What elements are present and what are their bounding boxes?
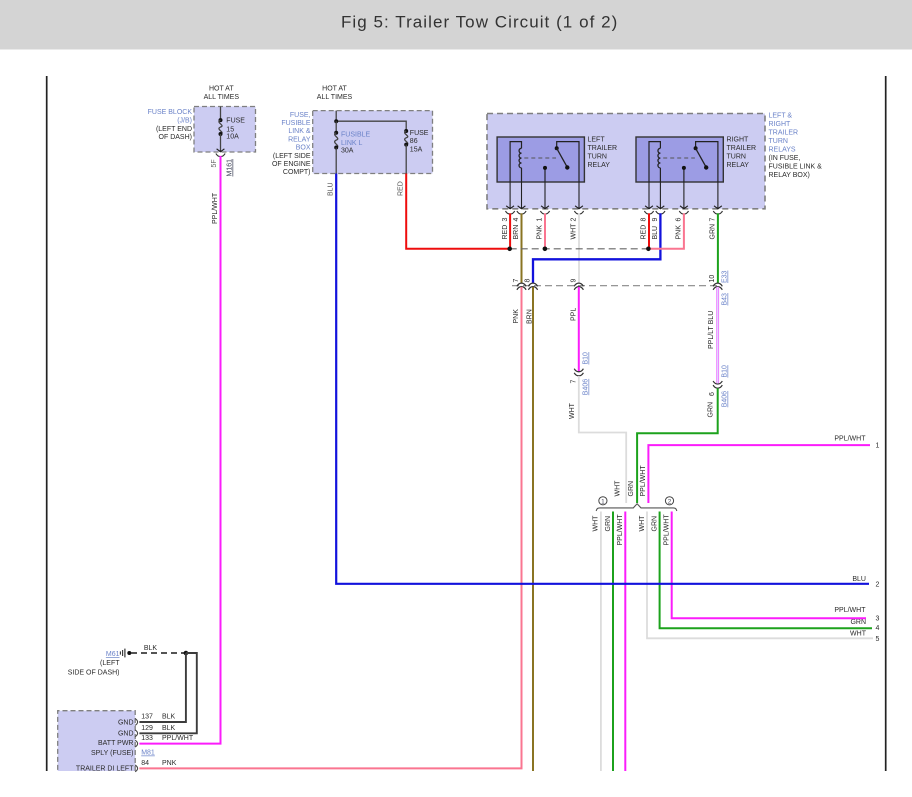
svg-text:GRN: GRN bbox=[628, 481, 635, 497]
wire BLU relay pin 9 to connector pin 8 bbox=[533, 213, 660, 283]
svg-text:15: 15 bbox=[226, 126, 234, 133]
svg-text:RIGHT: RIGHT bbox=[769, 121, 792, 128]
wire BRN relay pin 4 to connector pin 7 bbox=[521, 213, 523, 283]
svg-text:BLK: BLK bbox=[162, 725, 176, 732]
wire PPL/WHT branch 2 to right edge circuit 3 bbox=[672, 512, 866, 619]
relay pin 1 PNK bbox=[544, 182, 546, 208]
wire GRN relay pin 7 to connector pin 10 bbox=[717, 213, 719, 283]
fuse 86 15A bbox=[404, 129, 408, 133]
wire WHT branch 1 to page bottom bbox=[600, 512, 602, 772]
svg-text:PNK: PNK bbox=[162, 760, 177, 767]
title bar bbox=[0, 0, 912, 50]
wire WHT relay pin 2 to connector pin 9 bbox=[578, 213, 580, 283]
svg-text:BRN: BRN bbox=[513, 225, 520, 240]
relay pin 7 GRN bbox=[717, 182, 719, 208]
splice branch circle 1 bbox=[599, 497, 607, 505]
wire RED from fuse 86 to relay junction bbox=[406, 174, 510, 249]
wire RED relay pin 8 to junction bbox=[648, 213, 650, 249]
ground M61 bbox=[124, 649, 126, 658]
left page border bbox=[46, 76, 48, 771]
svg-text:B406: B406 bbox=[722, 391, 729, 407]
wire PPL/WHT from fuse 15 to pin 133 bbox=[139, 156, 220, 744]
svg-text:LEFT &: LEFT & bbox=[769, 113, 793, 120]
relay pin 3 RED bbox=[509, 182, 511, 208]
svg-text:LEFT: LEFT bbox=[588, 137, 606, 144]
svg-text:WHT: WHT bbox=[615, 480, 622, 497]
svg-text:15A: 15A bbox=[410, 146, 423, 153]
svg-text:(LEFT END: (LEFT END bbox=[156, 126, 192, 133]
connector B10 B406 pin 6 on PPL/LT BLU wire bbox=[713, 381, 722, 384]
svg-text:2: 2 bbox=[571, 218, 578, 222]
svg-text:6: 6 bbox=[676, 218, 683, 222]
svg-text:RELAY: RELAY bbox=[288, 136, 311, 143]
connector 5F M161 bbox=[216, 154, 225, 157]
svg-text:1: 1 bbox=[537, 218, 544, 222]
svg-text:TRAILER: TRAILER bbox=[588, 145, 618, 152]
wire PPL/WHT feed circuit 1 from right edge to splice bbox=[648, 445, 870, 503]
svg-text:129: 129 bbox=[141, 725, 153, 732]
svg-text:LINK &: LINK & bbox=[288, 128, 311, 135]
svg-text:TURN: TURN bbox=[588, 154, 607, 161]
svg-text:1: 1 bbox=[601, 498, 605, 505]
splice bracket with branches bbox=[596, 504, 677, 511]
svg-text:FUSIBLE: FUSIBLE bbox=[281, 120, 311, 127]
svg-text:RELAY BOX): RELAY BOX) bbox=[769, 172, 810, 179]
junction dot BLK bbox=[184, 651, 189, 656]
svg-text:PPL/WHT: PPL/WHT bbox=[834, 607, 866, 614]
wire RED relay pin 3 to junction bbox=[509, 213, 511, 249]
svg-text:PNK: PNK bbox=[513, 309, 520, 324]
wire BLU circuit 2 from fusible link to right edge bbox=[336, 174, 869, 584]
right page border bbox=[885, 76, 887, 771]
svg-text:Fig 5: Trailer Tow Circuit (1: Fig 5: Trailer Tow Circuit (1 of 2) bbox=[341, 13, 618, 32]
svg-text:4: 4 bbox=[513, 218, 520, 222]
wire GRN branch 2 to right edge circuit 4 bbox=[660, 512, 872, 629]
svg-text:ALL TIMES: ALL TIMES bbox=[317, 94, 353, 101]
svg-text:GRN: GRN bbox=[605, 516, 612, 532]
junction dashed bus RED 3 to RED 8 bbox=[510, 248, 649, 250]
svg-text:(LEFT: (LEFT bbox=[100, 660, 120, 667]
svg-text:9: 9 bbox=[570, 279, 577, 283]
relay pin 8 RED bbox=[648, 182, 650, 208]
svg-text:2: 2 bbox=[876, 582, 880, 589]
relay pin 6 PNK bbox=[683, 182, 685, 208]
svg-text:7: 7 bbox=[513, 279, 520, 283]
svg-text:SIDE OF DASH): SIDE OF DASH) bbox=[68, 670, 120, 677]
svg-text:BATT PWR: BATT PWR bbox=[98, 740, 134, 747]
svg-text:HOT AT: HOT AT bbox=[209, 86, 234, 93]
svg-text:FUSIBLE: FUSIBLE bbox=[341, 131, 371, 138]
wire WHT from B406 pin 7 to splice bbox=[579, 376, 626, 503]
wire GRN from B406 pin 6 to splice bbox=[637, 388, 718, 503]
wire BLK dashed from ground M61 bbox=[131, 652, 186, 654]
svg-text:RELAY: RELAY bbox=[588, 162, 611, 169]
svg-text:RED: RED bbox=[502, 225, 509, 240]
svg-text:137: 137 bbox=[141, 714, 153, 721]
wire WHT branch 2 to right edge circuit 5 bbox=[647, 512, 873, 639]
svg-text:PNK: PNK bbox=[676, 225, 683, 240]
svg-text:PNK: PNK bbox=[537, 225, 544, 240]
svg-text:BLK: BLK bbox=[162, 714, 176, 721]
svg-text:ALL TIMES: ALL TIMES bbox=[204, 94, 240, 101]
svg-text:BLK: BLK bbox=[144, 645, 158, 652]
svg-text:B10: B10 bbox=[583, 352, 590, 365]
svg-text:10A: 10A bbox=[226, 133, 239, 140]
svg-text:BLU: BLU bbox=[327, 182, 334, 196]
svg-text:86: 86 bbox=[410, 138, 418, 145]
svg-text:RELAYS: RELAYS bbox=[769, 147, 796, 154]
svg-text:PPL: PPL bbox=[570, 308, 577, 321]
junction dot PNK 1 bbox=[543, 247, 548, 252]
relay pin 9 BLU bbox=[659, 182, 661, 208]
svg-text:M61: M61 bbox=[106, 651, 120, 658]
svg-text:COMPT): COMPT) bbox=[283, 169, 311, 176]
svg-text:8: 8 bbox=[641, 218, 648, 222]
connector pin 10 bbox=[713, 283, 722, 286]
svg-text:OF DASH): OF DASH) bbox=[159, 134, 192, 141]
junction dot RED 8 bbox=[646, 247, 651, 252]
svg-text:6: 6 bbox=[709, 392, 716, 396]
svg-text:E33: E33 bbox=[722, 270, 729, 283]
svg-text:RELAY: RELAY bbox=[727, 162, 750, 169]
svg-text:FUSE,: FUSE, bbox=[290, 112, 311, 119]
svg-text:5F: 5F bbox=[211, 159, 218, 167]
left and right trailer turn relay outer box bbox=[487, 114, 765, 209]
svg-text:HOT AT: HOT AT bbox=[322, 86, 347, 93]
svg-text:TURN: TURN bbox=[727, 154, 746, 161]
svg-text:BLU: BLU bbox=[652, 226, 659, 240]
wire PPL/LT BLU connector pin 10 to connector B10 bbox=[716, 287, 719, 385]
svg-text:WHT: WHT bbox=[850, 630, 867, 637]
svg-text:3: 3 bbox=[502, 218, 509, 222]
svg-text:10: 10 bbox=[709, 275, 716, 283]
svg-text:TRAILER: TRAILER bbox=[727, 145, 757, 152]
svg-text:M81: M81 bbox=[141, 750, 155, 757]
svg-text:3: 3 bbox=[876, 615, 880, 622]
svg-text:RED: RED bbox=[641, 225, 648, 240]
svg-text:7: 7 bbox=[570, 380, 577, 384]
wire GRN branch 1 to page bottom bbox=[612, 512, 614, 772]
bus wire inside fusible link box bbox=[336, 111, 406, 131]
svg-text:WHT: WHT bbox=[569, 402, 576, 419]
svg-text:5: 5 bbox=[876, 636, 880, 643]
wire PNK connector pin 7 to trailer pin 84 bbox=[139, 287, 521, 769]
wire BLK junction to pin 137 bbox=[139, 653, 186, 722]
svg-text:(J/B): (J/B) bbox=[177, 118, 192, 125]
svg-text:WHT: WHT bbox=[592, 515, 599, 532]
svg-text:GRN: GRN bbox=[710, 224, 717, 240]
svg-text:GRN: GRN bbox=[708, 402, 715, 418]
svg-text:PPL/WHT: PPL/WHT bbox=[834, 435, 866, 442]
connector pin 7 bbox=[517, 283, 526, 286]
svg-text:WHT: WHT bbox=[571, 223, 578, 240]
svg-text:GRN: GRN bbox=[850, 619, 866, 626]
svg-text:SPLY (FUSE): SPLY (FUSE) bbox=[91, 750, 134, 757]
svg-text:GND: GND bbox=[118, 731, 134, 738]
wire PNK relay pin 1 to junction bbox=[544, 213, 546, 249]
junction dot RED 3 bbox=[507, 247, 512, 252]
svg-text:4: 4 bbox=[876, 625, 880, 632]
svg-text:84: 84 bbox=[141, 760, 149, 767]
relay pin 2 WHT bbox=[578, 182, 580, 208]
svg-text:1: 1 bbox=[876, 443, 880, 450]
svg-text:9: 9 bbox=[652, 218, 659, 222]
svg-text:TRAILER DI LEFT: TRAILER DI LEFT bbox=[76, 766, 134, 773]
relay pin 4 BRN bbox=[521, 182, 523, 208]
splice branch circle 2 bbox=[665, 497, 673, 505]
right trailer turn relay bbox=[636, 137, 723, 182]
svg-text:(LEFT SIDE: (LEFT SIDE bbox=[273, 153, 311, 160]
svg-text:7: 7 bbox=[710, 218, 717, 222]
svg-text:BOX: BOX bbox=[296, 145, 311, 152]
svg-text:GND: GND bbox=[118, 719, 134, 726]
svg-text:B10: B10 bbox=[722, 365, 729, 378]
svg-text:B43: B43 bbox=[722, 293, 729, 306]
svg-text:(IN FUSE,: (IN FUSE, bbox=[769, 155, 801, 162]
svg-text:GRN: GRN bbox=[652, 516, 659, 532]
svg-text:133: 133 bbox=[141, 735, 153, 742]
fuse 15 10A bbox=[220, 107, 222, 121]
svg-text:RIGHT: RIGHT bbox=[727, 137, 750, 144]
svg-text:PPL/WHT: PPL/WHT bbox=[212, 192, 219, 224]
svg-text:B406: B406 bbox=[583, 379, 590, 395]
left trailer turn relay bbox=[497, 137, 584, 182]
svg-text:8: 8 bbox=[525, 279, 532, 283]
fuse fusible link and relay box bbox=[313, 111, 433, 174]
svg-text:30A: 30A bbox=[341, 148, 354, 155]
svg-text:M161: M161 bbox=[227, 159, 234, 177]
svg-text:2: 2 bbox=[668, 498, 672, 505]
svg-text:FUSE: FUSE bbox=[410, 130, 429, 137]
wire PNK relay pin 6 to junction bbox=[651, 213, 684, 249]
fuse block J/B box bbox=[194, 107, 256, 153]
svg-text:PPL/WHT: PPL/WHT bbox=[640, 465, 647, 497]
svg-text:FUSIBLE LINK &: FUSIBLE LINK & bbox=[769, 164, 823, 171]
svg-text:PPL/WHT: PPL/WHT bbox=[162, 735, 194, 742]
fusible link L 30A bbox=[335, 121, 337, 133]
trailer tow unit box bbox=[58, 711, 136, 771]
connector pin 9 bbox=[574, 283, 583, 286]
svg-text:OF ENGINE: OF ENGINE bbox=[272, 161, 311, 168]
wire BRN connector pin 8 down to page bottom bbox=[532, 287, 534, 771]
svg-text:LINK L: LINK L bbox=[341, 140, 363, 147]
svg-text:WHT: WHT bbox=[639, 515, 646, 532]
connector row E33 B43 dashed line bbox=[512, 285, 718, 287]
wire PPL connector pin 9 to connector B10 bbox=[578, 287, 580, 372]
svg-text:FUSE: FUSE bbox=[226, 117, 245, 124]
connector B10 B406 pin 7 on PPL wire bbox=[574, 369, 583, 372]
wire BLK junction to pin 129 bbox=[139, 653, 196, 733]
wire PPL/WHT branch 1 to page bottom bbox=[624, 512, 626, 772]
svg-text:TURN: TURN bbox=[769, 138, 788, 145]
svg-text:PPL/WHT: PPL/WHT bbox=[617, 514, 624, 546]
svg-text:FUSE BLOCK: FUSE BLOCK bbox=[148, 109, 193, 116]
svg-text:RED: RED bbox=[397, 181, 404, 196]
svg-text:BLU: BLU bbox=[852, 576, 866, 583]
svg-text:PPL/LT BLU: PPL/LT BLU bbox=[708, 311, 715, 349]
svg-text:TRAILER: TRAILER bbox=[769, 130, 799, 137]
svg-text:BRN: BRN bbox=[527, 309, 534, 324]
connector pin 8 bbox=[528, 283, 537, 286]
svg-text:PPL/WHT: PPL/WHT bbox=[664, 514, 671, 546]
